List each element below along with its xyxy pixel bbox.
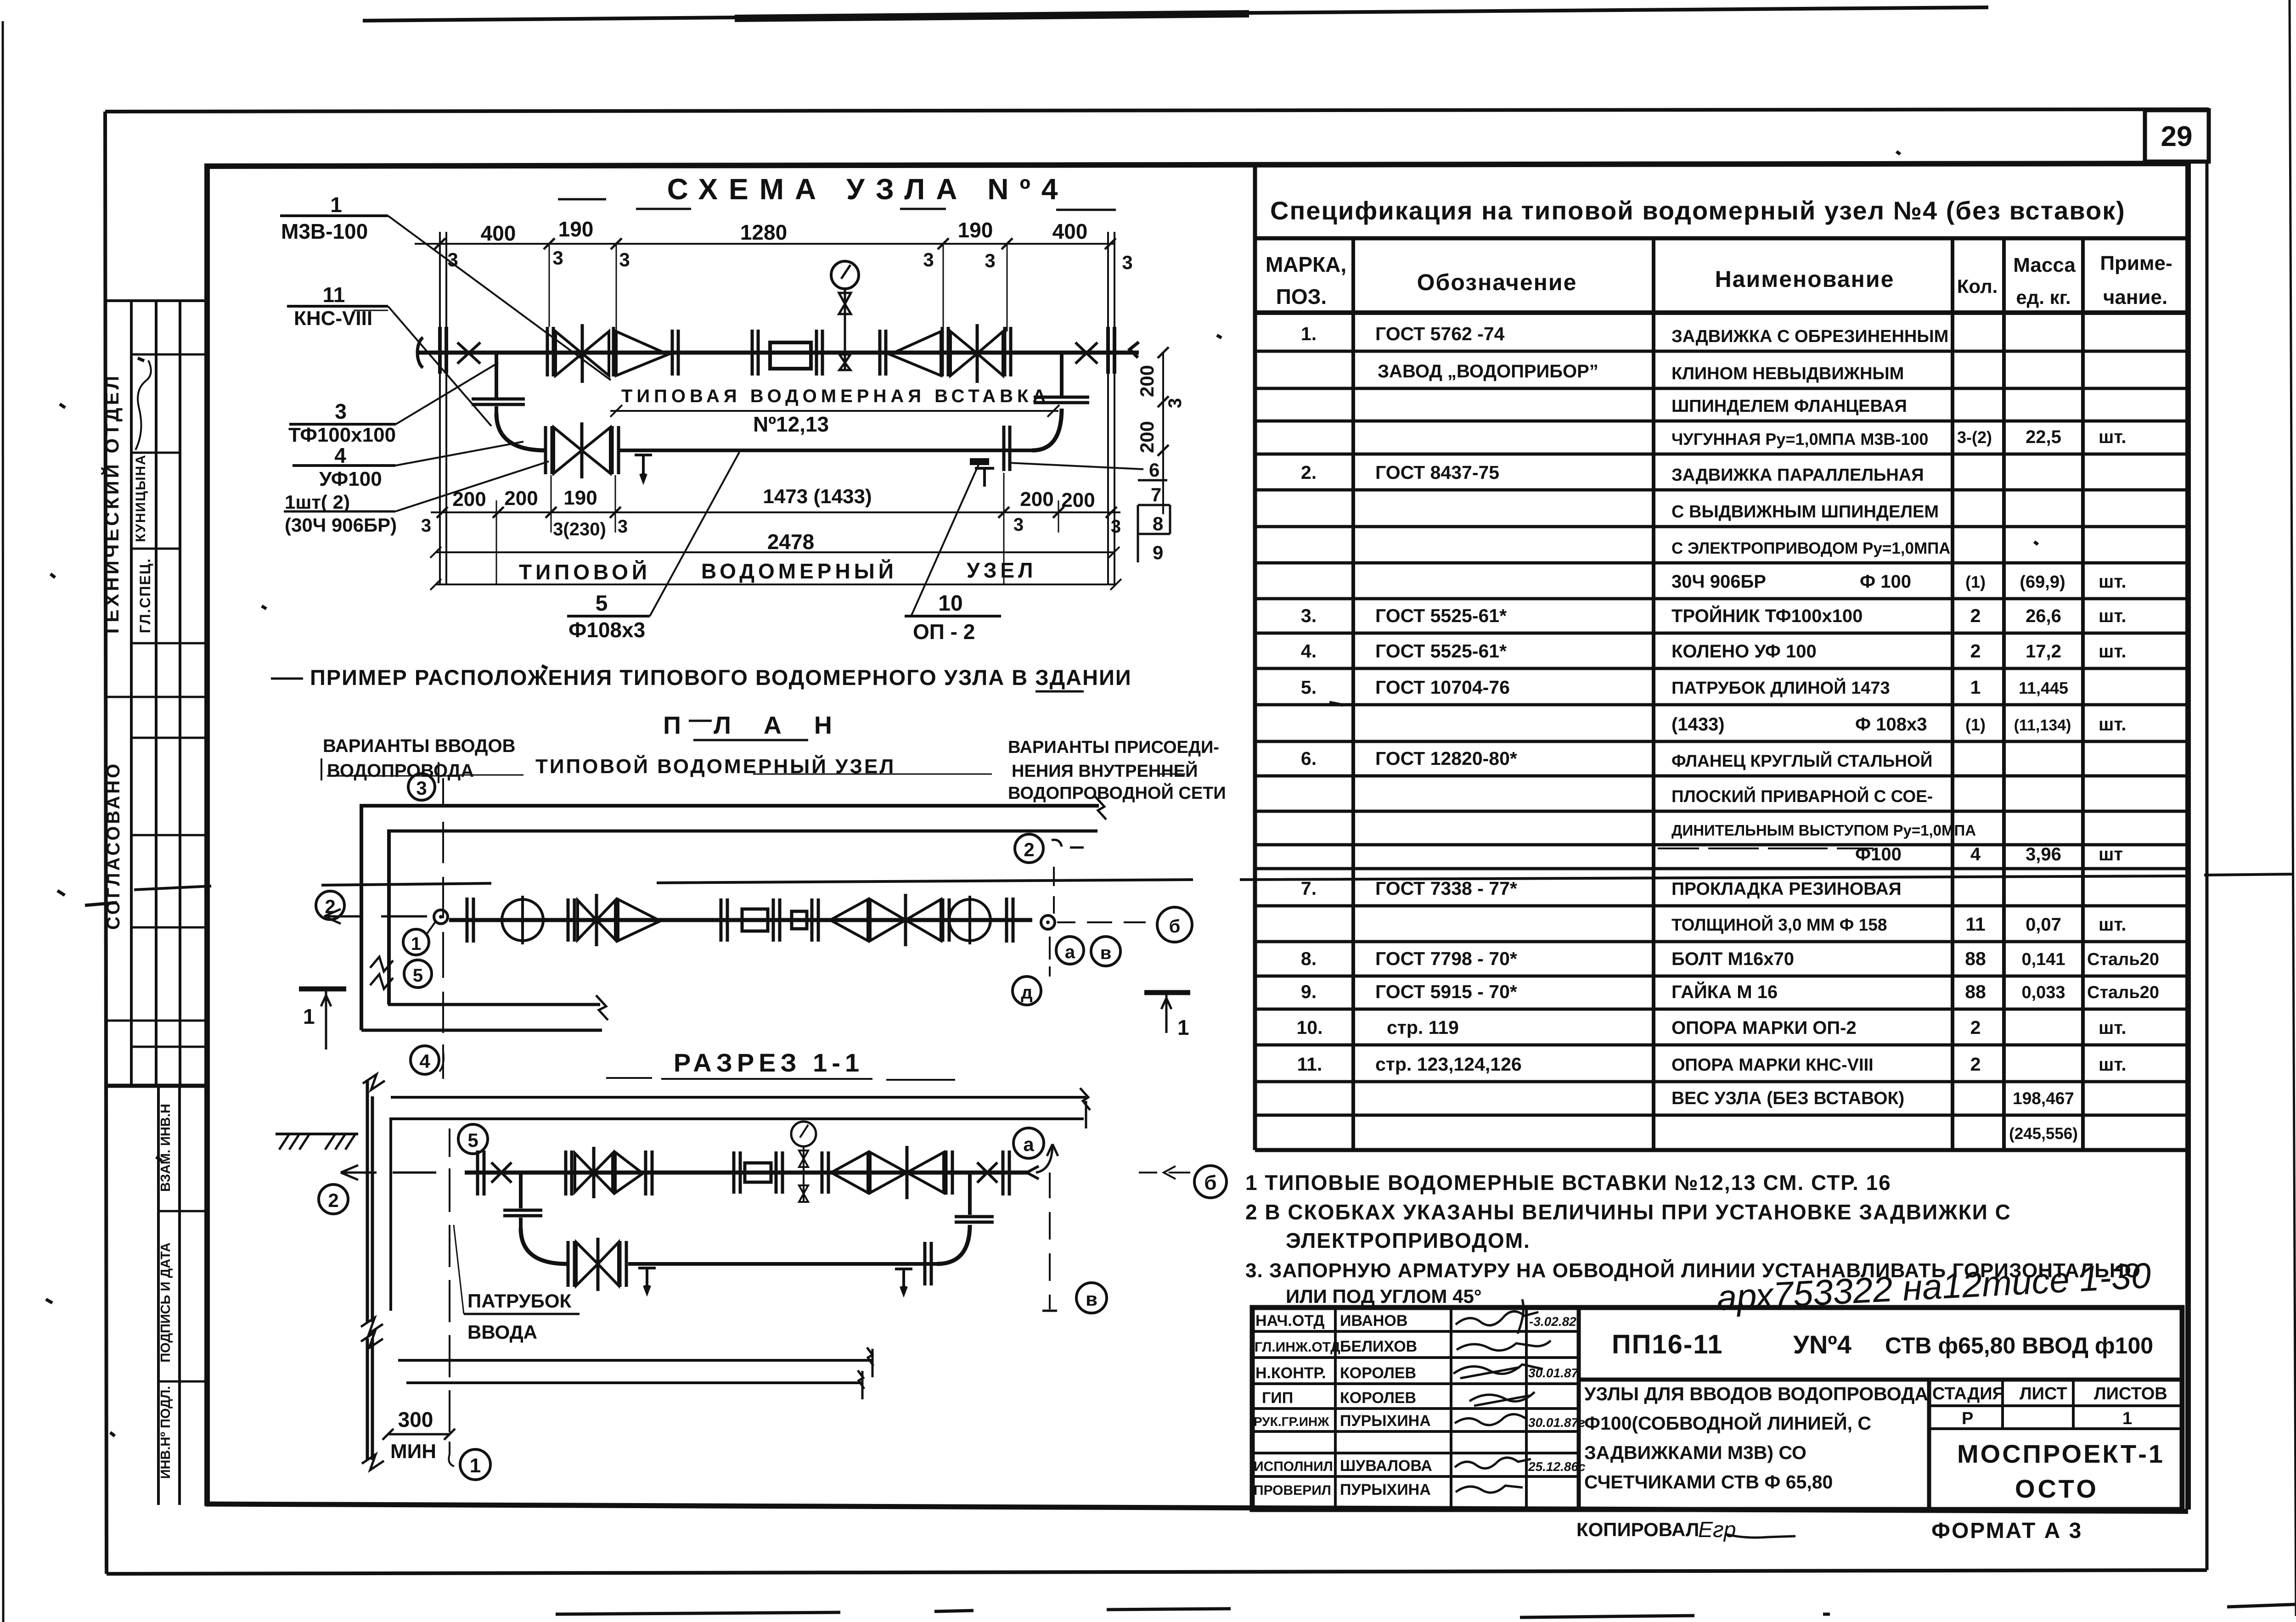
svg-text:3.: 3. — [1301, 605, 1317, 626]
node 5 — [404, 960, 432, 988]
svg-text:ВВОДА: ВВОДА — [467, 1321, 537, 1343]
svg-text:МОСПРОЕКТ-1: МОСПРОЕКТ-1 — [1957, 1439, 2165, 1468]
cone reducer right of V1 — [612, 327, 615, 376]
svg-text:ТРОЙНИК ТФ100х100: ТРОЙНИК ТФ100х100 — [1671, 605, 1863, 626]
small specks — [46, 152, 2038, 1436]
axis 4 — [411, 1046, 439, 1074]
svg-text:ТОЛЩИНОЙ 3,0 ММ Ф 158: ТОЛЩИНОЙ 3,0 ММ Ф 158 — [1671, 915, 1887, 934]
bypass right flange — [1004, 426, 1010, 471]
bypass right elbow — [1032, 409, 1062, 450]
svg-text:1473 (1433): 1473 (1433) — [763, 485, 872, 508]
svg-text:чание.: чание. — [2103, 286, 2167, 309]
svg-text:ПОЗ.: ПОЗ. — [1276, 285, 1327, 309]
svg-text:1: 1 — [1970, 677, 1981, 698]
fp — [812, 898, 818, 942]
svg-text:ПАТРУБОК: ПАТРУБОК — [467, 1290, 572, 1312]
gauge — [791, 1122, 816, 1146]
svg-text:ТЕХНИЧЕСКИЙ ОТДЕЛ: ТЕХНИЧЕСКИЙ ОТДЕЛ — [101, 373, 123, 637]
svg-text:Ф108х3: Ф108х3 — [568, 618, 645, 642]
header texts — [1266, 252, 2172, 309]
bypass pipe — [628, 1262, 938, 1266]
inlet fitting small circle — [434, 910, 448, 924]
svg-text:Н.КОНТР.: Н.КОНТР. — [1255, 1364, 1326, 1382]
node 2 right — [1015, 834, 1043, 863]
page smear line across — [134, 874, 2294, 890]
svg-text:ГОСТ 5915 - 70*: ГОСТ 5915 - 70* — [1375, 981, 1517, 1002]
section mark 1-1 left — [299, 987, 346, 992]
svg-text:шт.: шт. — [2099, 1055, 2127, 1075]
dim 2478 — [430, 547, 1120, 558]
right riser elbow with arrow — [1036, 1144, 1052, 1173]
bowtie valve — [578, 900, 615, 940]
cone reducer left of V2 — [890, 331, 941, 376]
svg-text:ТИПОВОЙ: ТИПОВОЙ — [519, 560, 651, 584]
svg-text:25.12.86с: 25.12.86с — [1528, 1459, 1586, 1474]
riser right flange — [1034, 397, 1089, 403]
pipe right end arrow — [1130, 342, 1139, 358]
svg-text:Наименование: Наименование — [1715, 266, 1895, 292]
svg-text:3-(2): 3-(2) — [1957, 428, 1992, 447]
svg-text:ШУВАЛОВА: ШУВАЛОВА — [1340, 1457, 1432, 1475]
svg-text:С ВЫДВИЖНЫМ ШПИНДЕЛЕМ: С ВЫДВИЖНЫМ ШПИНДЕЛЕМ — [1671, 502, 1939, 522]
svg-text:7.: 7. — [1301, 878, 1317, 899]
svg-text:5.: 5. — [1301, 677, 1317, 698]
svg-text:ГИП: ГИП — [1262, 1389, 1293, 1407]
wall break marks left — [370, 957, 393, 971]
svg-text:ВОДОПРОВОДНОЙ СЕТИ: ВОДОПРОВОДНОЙ СЕТИ — [1008, 782, 1226, 803]
svg-text:2478: 2478 — [767, 530, 814, 554]
pipe left end bracket — [417, 337, 423, 368]
right elbow up — [937, 1225, 970, 1264]
bypass valve — [546, 426, 619, 474]
svg-text:198,467: 198,467 — [2013, 1089, 2074, 1108]
node v — [1091, 937, 1120, 966]
svg-text:ОСТО: ОСТО — [2015, 1474, 2099, 1503]
svg-text:ПП16-11: ПП16-11 — [1612, 1330, 1723, 1359]
water meter — [770, 342, 811, 369]
svg-text:30.01.87г: 30.01.87г — [1528, 1415, 1585, 1430]
guide dashed line — [327, 774, 1185, 776]
fp — [773, 898, 780, 942]
svg-text:1 ТИПОВЫЕ ВОДОМЕРНЫЕ ВСТАВК: 1 ТИПОВЫЕ ВОДОМЕРНЫЕ ВСТАВКИ №12,13 СМ. … — [1245, 1171, 1891, 1195]
flange F5 — [880, 330, 886, 376]
svg-text:д: д — [1021, 982, 1032, 1003]
round valve left — [502, 899, 543, 941]
round valve right — [949, 899, 990, 941]
top dimension line — [415, 243, 1114, 245]
LEFT COLUMN STRIPS — [107, 301, 209, 1505]
svg-text:НЕНИЯ ВНУТРЕННЕЙ: НЕНИЯ ВНУТРЕННЕЙ — [1012, 760, 1198, 781]
6 7 8 9 ladder — [1138, 480, 1170, 562]
svg-text:КОПИРОВАЛ: КОПИРОВАЛ — [1576, 1519, 1699, 1540]
svg-text:Приме-: Приме- — [2100, 252, 2172, 275]
svg-text:4.: 4. — [1301, 640, 1317, 662]
svg-text:200: 200 — [1061, 489, 1095, 511]
svg-text:Спецификация на типовой водо: Спецификация на типовой водомерный узел … — [1270, 196, 2126, 225]
svg-text:ОПОРА МАРКИ ОП-2: ОПОРА МАРКИ ОП-2 — [1671, 1018, 1857, 1038]
node 1 — [403, 929, 429, 955]
svg-text:26,6: 26,6 — [2026, 606, 2061, 626]
support weld dot right — [970, 458, 989, 465]
svg-text:ВАРИАНТЫ ВВОДОВ: ВАРИАНТЫ ВВОДОВ — [323, 736, 516, 756]
lower dim chain — [431, 511, 1120, 513]
svg-text:ГОСТ 12820-80*: ГОСТ 12820-80* — [1375, 748, 1517, 769]
svg-text:шт.: шт. — [2099, 572, 2127, 592]
svg-text:3: 3 — [335, 399, 347, 423]
flange F4 — [816, 330, 822, 376]
walls — [360, 804, 1099, 808]
axis 5 dash-dot — [449, 1128, 450, 1454]
svg-text:88: 88 — [1965, 981, 1986, 1002]
svg-text:МАРКА,: МАРКА, — [1266, 253, 1346, 276]
svg-text:КЛИНОМ НЕВЫДВИЖНЫМ: КЛИНОМ НЕВЫДВИЖНЫМ — [1671, 364, 1904, 383]
svg-text:ГОСТ 10704-76: ГОСТ 10704-76 — [1375, 677, 1510, 698]
svg-text:УЗЕЛ: УЗЕЛ — [967, 558, 1036, 582]
svg-text:30Ч 906БР: 30Ч 906БР — [1671, 572, 1766, 592]
svg-text:(245,556): (245,556) — [2009, 1125, 2078, 1143]
svg-text:Обозначение: Обозначение — [1417, 269, 1577, 295]
sheet number box 29 — [2145, 110, 2209, 162]
svg-text:ТИПОВАЯ ВОДОМЕРНАЯ ВСТАВКА: ТИПОВАЯ ВОДОМЕРНАЯ ВСТАВКА — [621, 386, 1050, 406]
lower strip — [158, 1086, 180, 1505]
axis 2 — [319, 1184, 348, 1214]
left edge scan line — [3, 21, 3, 1622]
svg-text:РУК.ГР.ИНЖ: РУК.ГР.ИНЖ — [1254, 1414, 1329, 1429]
svg-text:СХЕМА УЗЛА Nº4: СХЕМА УЗЛА Nº4 — [667, 173, 1069, 206]
elbow to bypass — [496, 413, 546, 450]
fp — [467, 898, 473, 943]
meter — [742, 909, 768, 931]
svg-text:ЭЛЕКТРОПРИВОДОМ.: ЭЛЕКТРОПРИВОДОМ. — [1286, 1229, 1531, 1252]
stage/sheet header — [1932, 1384, 2167, 1428]
inner drawing frame — [205, 163, 2188, 1511]
svg-text:ВЕС УЗЛА (БЕЗ ВСТАВОК): ВЕС УЗЛА (БЕЗ ВСТАВОК) — [1671, 1089, 1904, 1108]
svg-text:(30Ч 906БР): (30Ч 906БР) — [285, 514, 397, 536]
svg-text:3: 3 — [923, 249, 934, 270]
svg-text:1: 1 — [411, 934, 421, 954]
svg-text:3: 3 — [618, 516, 628, 537]
svg-text:6.: 6. — [1301, 748, 1317, 769]
svg-text:шт: шт — [2099, 844, 2123, 864]
dates — [1528, 1314, 1586, 1474]
svg-text:200: 200 — [1136, 421, 1158, 453]
svg-text:ИСПОЛНИЛ: ИСПОЛНИЛ — [1254, 1459, 1333, 1474]
signatures squiggles — [1453, 1299, 1551, 1493]
svg-text:2: 2 — [328, 1190, 338, 1211]
svg-text:ед. кг.: ед. кг. — [2016, 286, 2071, 308]
svg-text:3: 3 — [416, 777, 427, 799]
ground line with hatching — [276, 1133, 358, 1135]
svg-text:2: 2 — [1970, 1017, 1981, 1038]
svg-text:3: 3 — [1111, 516, 1121, 537]
outlet fitting — [1041, 915, 1055, 929]
svg-text:4: 4 — [334, 443, 346, 467]
svg-text:10.: 10. — [1297, 1017, 1323, 1038]
svg-text:ГОСТ 5525-61*: ГОСТ 5525-61* — [1375, 605, 1507, 626]
node d — [1013, 977, 1041, 1005]
flange F6 with extensions — [1108, 232, 1114, 584]
main pipe — [465, 1171, 1028, 1175]
svg-text:ВАРИАНТЫ ПРИСОЕДИ-: ВАРИАНТЫ ПРИСОЕДИ- — [1008, 738, 1219, 757]
svg-text:БОЛТ М16х70: БОЛТ М16х70 — [1671, 949, 1794, 969]
svg-text:шт.: шт. — [2099, 1018, 2127, 1038]
tee riser left — [495, 353, 498, 398]
bypass pipe — [620, 449, 1032, 452]
svg-text:4: 4 — [1970, 844, 1981, 864]
svg-text:НАЧ.ОТД: НАЧ.ОТД — [1255, 1312, 1324, 1330]
svg-text:шт.: шт. — [2099, 427, 2127, 447]
svg-text:шт.: шт. — [2099, 915, 2127, 935]
svg-text:1шт( 2): 1шт( 2) — [285, 491, 350, 513]
svg-text:29: 29 — [2161, 121, 2193, 152]
flange F2 — [672, 330, 678, 376]
svg-text:11: 11 — [1965, 914, 1985, 935]
svg-text:2.: 2. — [1301, 462, 1317, 483]
svg-text:ФОРМАТ А 3: ФОРМАТ А 3 — [1931, 1519, 2082, 1543]
svg-text:Масса: Масса — [2013, 254, 2076, 276]
svg-text:(1): (1) — [1965, 715, 1986, 734]
svg-text:190: 190 — [958, 218, 993, 242]
svg-text:РАЗРЕЗ 1-1: РАЗРЕЗ 1-1 — [674, 1048, 864, 1077]
svg-text:3: 3 — [1165, 398, 1185, 408]
svg-text:2: 2 — [1024, 839, 1034, 860]
svg-text:КОРОЛЕВ: КОРОЛЕВ — [1340, 1364, 1416, 1382]
stamp grid — [1252, 1308, 2182, 1510]
svg-text:ТФ100х100: ТФ100х100 — [288, 424, 396, 446]
pressure gauge — [831, 261, 859, 289]
svg-text:ГЛ.ИНЖ.ОТД: ГЛ.ИНЖ.ОТД — [1255, 1340, 1340, 1355]
svg-text:шт.: шт. — [2099, 606, 2127, 626]
svg-text:0,033: 0,033 — [2021, 983, 2065, 1002]
svg-text:Сталь20: Сталь20 — [2087, 950, 2159, 969]
svg-text:Егр: Егр — [1698, 1518, 1736, 1542]
svg-text:ПАТРУБОК ДЛИНОЙ 1473: ПАТРУБОК ДЛИНОЙ 1473 — [1671, 677, 1890, 698]
placeholder groups to be filled — [271, 173, 1185, 691]
svg-text:Ф100: Ф100 — [1855, 844, 1902, 864]
svg-text:ГОСТ 8437-75: ГОСТ 8437-75 — [1375, 462, 1499, 483]
floor lines — [398, 1360, 872, 1383]
svg-text:1: 1 — [470, 1454, 481, 1477]
wall end break marks — [596, 797, 1106, 1020]
svg-text:ВОДОМЕРНЫЙ: ВОДОМЕРНЫЙ — [701, 559, 897, 583]
dashes to node b — [1139, 1166, 1190, 1179]
node a — [1056, 937, 1084, 964]
fp — [1007, 898, 1013, 943]
svg-text:4: 4 — [419, 1050, 430, 1072]
svg-text:3: 3 — [421, 516, 431, 536]
svg-text:ЗАВОД „ВОДОПРИБОР”: ЗАВОД „ВОДОПРИБОР” — [1378, 361, 1598, 382]
svg-text:0,07: 0,07 — [2026, 915, 2061, 935]
svg-text:М3В-100: М3В-100 — [281, 219, 368, 243]
svg-text:ГОСТ 7338 - 77*: ГОСТ 7338 - 77* — [1375, 878, 1517, 899]
svg-text:Nº12,13: Nº12,13 — [753, 412, 829, 436]
svg-text:400: 400 — [1052, 219, 1088, 243]
svg-text:стр. 123,124,126: стр. 123,124,126 — [1375, 1054, 1522, 1075]
flange F3 — [752, 330, 758, 376]
svg-text:ЗАДВИЖКА С ОБРЕЗИНЕННЫМ: ЗАДВИЖКА С ОБРЕЗИНЕННЫМ — [1671, 327, 1948, 346]
svg-text:3: 3 — [1013, 515, 1024, 535]
riser flange — [472, 399, 525, 404]
upper strip horizontals — [107, 299, 207, 302]
svg-text:ДИНИТЕЛЬНЫМ ВЫСТУПОМ Ру=1,0МПА: ДИНИТЕЛЬНЫМ ВЫСТУПОМ Ру=1,0МПА — [1671, 822, 1976, 839]
svg-text:б: б — [1169, 916, 1181, 937]
svg-text:ПРОВЕРИЛ: ПРОВЕРИЛ — [1254, 1483, 1331, 1498]
inner wall line — [389, 1117, 392, 1311]
svg-text:5: 5 — [467, 1129, 478, 1151]
svg-text:ЗАДВИЖКАМИ М3В) СО: ЗАДВИЖКАМИ М3В) СО — [1584, 1442, 1806, 1463]
svg-text:ЛИСТ: ЛИСТ — [2020, 1384, 2067, 1403]
svg-text:шт.: шт. — [2099, 714, 2127, 735]
valve V2 — [942, 327, 948, 376]
svg-text:ВОДОПРОВОДА: ВОДОПРОВОДА — [327, 761, 474, 781]
svg-text:ВЗАМ. ИНВ.Н: ВЗАМ. ИНВ.Н — [158, 1104, 173, 1192]
svg-text:(69,9): (69,9) — [2020, 572, 2065, 592]
section mark 1-1 right — [1144, 990, 1190, 995]
svg-text:ИВАНОВ: ИВАНОВ — [1340, 1312, 1407, 1330]
svg-text:СЧЕТЧИКАМИ СТВ Ф 65,80: СЧЕТЧИКАМИ СТВ Ф 65,80 — [1584, 1471, 1833, 1493]
fp + meter — [734, 1151, 740, 1194]
svg-text:190: 190 — [563, 487, 597, 509]
svg-text:ИЛИ ПОД УГЛОМ 45°: ИЛИ ПОД УГЛОМ 45° — [1286, 1285, 1482, 1307]
svg-text:11,445: 11,445 — [2019, 679, 2068, 697]
signature squiggle in strip — [135, 360, 151, 450]
svg-text:Кол.: Кол. — [1957, 275, 1998, 297]
svg-text:(11,134): (11,134) — [2014, 717, 2071, 734]
cone + bowtie right — [830, 899, 868, 941]
svg-text:УФ100: УФ100 — [319, 468, 382, 490]
svg-text:3: 3 — [1122, 252, 1132, 273]
svg-text:2: 2 — [1970, 605, 1981, 626]
end arrow — [1027, 1166, 1039, 1179]
svg-text:1: 1 — [2122, 1409, 2132, 1428]
svg-text:11: 11 — [323, 283, 345, 307]
svg-text:5: 5 — [596, 591, 608, 616]
svg-text:П Л А Н: П Л А Н — [663, 712, 845, 739]
ceiling double line — [391, 1097, 1086, 1119]
svg-text:в: в — [1086, 1288, 1097, 1310]
svg-text:300: 300 — [398, 1408, 433, 1431]
svg-text:шт.: шт. — [2099, 641, 2127, 662]
svg-text:КУНИЦЫНА: КУНИЦЫНА — [133, 454, 148, 542]
node 1 — [460, 1449, 490, 1480]
svg-text:200: 200 — [1020, 488, 1053, 511]
upper strip verticals — [131, 301, 180, 1086]
X mark right — [1075, 342, 1097, 364]
svg-text:ПРИМЕР РАСПОЛОЖЕНИЯ ТИПОВОГО: ПРИМЕР РАСПОЛОЖЕНИЯ ТИПОВОГО ВОДОМЕРНОГО… — [310, 665, 1132, 690]
svg-text:в: в — [1100, 943, 1112, 963]
svg-text:ПЛОСКИЙ ПРИВАРНОЙ С СОЕ-: ПЛОСКИЙ ПРИВАРНОЙ С СОЕ- — [1671, 786, 1933, 806]
svg-text:1: 1 — [330, 193, 342, 217]
svg-text:МИН: МИН — [390, 1440, 436, 1463]
plan pipe — [449, 918, 1032, 922]
flange F1 with extension lines — [440, 232, 446, 584]
right fp on bypass — [925, 1242, 931, 1285]
svg-text:3: 3 — [985, 250, 995, 271]
bottom broken scan dashes — [556, 1604, 2296, 1617]
svg-text:б: б — [1204, 1172, 1216, 1194]
svg-text:(1433): (1433) — [1671, 714, 1725, 735]
upper valve V1 — [566, 1151, 572, 1195]
svg-text:22,5: 22,5 — [2026, 427, 2061, 447]
svg-text:КОЛЕНО УФ 100: КОЛЕНО УФ 100 — [1671, 641, 1817, 662]
svg-text:2: 2 — [1970, 1054, 1981, 1075]
svg-text:3,96: 3,96 — [2026, 844, 2061, 864]
svg-text:ГАЙКА М 16: ГАЙКА М 16 — [1671, 981, 1778, 1002]
svg-text:2 В СКОБКАХ УКАЗАНЫ ВЕЛИЧИН: 2 В СКОБКАХ УКАЗАНЫ ВЕЛИЧИНЫ ПРИ УСТАНОВ… — [1245, 1200, 2011, 1224]
tee riser right — [1060, 353, 1064, 398]
svg-text:ЧУГУННАЯ Ру=1,0МПА М3В-100: ЧУГУННАЯ Ру=1,0МПА М3В-100 — [1671, 430, 1928, 449]
svg-text:ЛИСТОВ: ЛИСТОВ — [2094, 1384, 2167, 1403]
svg-text:СТВ ф65,80 ВВОД ф100: СТВ ф65,80 ВВОД ф100 — [1885, 1333, 2153, 1358]
top edge scan line — [363, 7, 1988, 21]
svg-text:ОП - 2: ОП - 2 — [913, 620, 975, 644]
svg-text:БЕЛИХОВ: БЕЛИХОВ — [1340, 1338, 1417, 1355]
svg-text:СОГЛАСОВАНО: СОГЛАСОВАНО — [103, 762, 124, 930]
svg-text:200: 200 — [504, 487, 538, 510]
svg-text:3(230): 3(230) — [553, 519, 606, 539]
svg-text:СТАДИЯ: СТАДИЯ — [1932, 1384, 2005, 1403]
fp — [721, 898, 727, 942]
fp — [568, 898, 574, 942]
svg-text:0,141: 0,141 — [2021, 950, 2065, 969]
svg-text:200: 200 — [1136, 365, 1158, 397]
svg-text:9: 9 — [1153, 542, 1163, 563]
data rows — [1297, 323, 2159, 1143]
table grid — [1255, 167, 2188, 1150]
X mark — [491, 1162, 512, 1183]
svg-text:-3.02.82: -3.02.82 — [1529, 1314, 1576, 1329]
svg-text:8.: 8. — [1301, 948, 1317, 969]
X mark weld — [457, 342, 480, 364]
svg-text:ЗАДВИЖКА ПАРАЛЛЕЛЬНАЯ: ЗАДВИЖКА ПАРАЛЛЕЛЬНАЯ — [1671, 466, 1924, 485]
svg-text:7: 7 — [1151, 484, 1161, 505]
valve V1 — [547, 327, 553, 376]
svg-text:2: 2 — [1970, 640, 1981, 662]
svg-text:Ф100(СОБВОДНОЙ ЛИНИЕЙ, С: Ф100(СОБВОДНОЙ ЛИНИЕЙ, С — [1584, 1413, 1871, 1434]
svg-text:ПУРЫХИНА: ПУРЫХИНА — [1340, 1481, 1431, 1499]
outer wall — [367, 1080, 372, 1322]
svg-text:а: а — [1065, 942, 1075, 962]
tee riser + bypass — [519, 1173, 523, 1208]
svg-text:1280: 1280 — [740, 220, 787, 244]
svg-text:1: 1 — [1177, 1016, 1189, 1039]
fp — [478, 1151, 484, 1195]
svg-text:1.: 1. — [1301, 323, 1317, 344]
svg-text:10: 10 — [938, 591, 962, 616]
right edge scan line — [2290, 0, 2296, 1616]
svg-text:1: 1 — [303, 1005, 315, 1028]
support T left — [635, 455, 652, 481]
svg-text:ПРОКЛАДКА РЕЗИНОВАЯ: ПРОКЛАДКА РЕЗИНОВАЯ — [1671, 879, 1902, 899]
svg-text:а: а — [1023, 1134, 1034, 1155]
svg-text:88: 88 — [1965, 948, 1986, 969]
axis 2 left — [316, 891, 344, 920]
svg-text:3: 3 — [619, 249, 630, 270]
svg-text:С ЭЛЕКТРОПРИВОДОМ Ру=1,0МПА: С ЭЛЕКТРОПРИВОДОМ Ру=1,0МПА — [1671, 539, 1951, 557]
svg-text:17,2: 17,2 — [2026, 641, 2061, 662]
svg-text:400: 400 — [481, 221, 516, 245]
node b right — [1157, 907, 1192, 942]
signature rows — [1254, 1312, 1432, 1499]
small fitting rect — [792, 911, 807, 929]
main pipe — [416, 351, 1139, 355]
fp + cone + valve right — [822, 1151, 828, 1194]
svg-text:УЗЛЫ ДЛЯ ВВОДОВ ВОДОПРОВОДА: УЗЛЫ ДЛЯ ВВОДОВ ВОДОПРОВОДА — [1584, 1383, 1928, 1404]
axis 3 — [408, 774, 435, 800]
fp right — [1003, 1151, 1009, 1195]
svg-text:ГОСТ 7798 - 70*: ГОСТ 7798 - 70* — [1375, 948, 1517, 969]
svg-text:УNº4: УNº4 — [1793, 1330, 1851, 1359]
